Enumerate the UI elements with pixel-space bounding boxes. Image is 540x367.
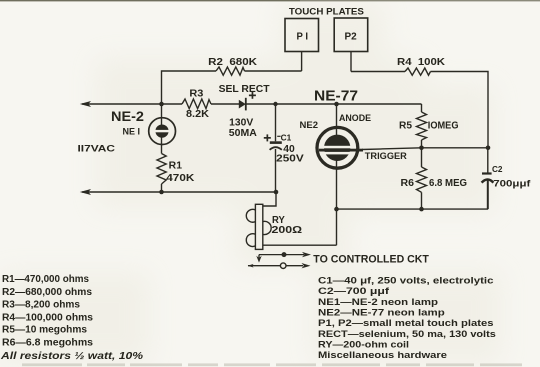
wire trigger line	[362, 148, 488, 150]
svg-text:NE I: NE I	[123, 126, 141, 136]
wire top rail right	[351, 72, 488, 148]
relay contact arm lower	[248, 263, 311, 269]
svg-text:R6: R6	[401, 178, 415, 189]
wire top rail left	[162, 71, 302, 104]
touch plate P1	[285, 19, 319, 72]
svg-text:P I: P I	[297, 31, 309, 43]
capacitor C1	[264, 104, 304, 192]
node junction C1 bottom / relay feed	[274, 190, 279, 195]
resistor R1	[157, 154, 195, 185]
svg-text:R6—6.8 megohms: R6—6.8 megohms	[2, 338, 93, 349]
svg-text:250V: 250V	[276, 154, 304, 165]
node junction trigger C2	[486, 146, 491, 151]
parts list left	[0, 274, 143, 362]
svg-text:TOUCH PLATES: TOUCH PLATES	[289, 7, 364, 18]
resistor R3	[182, 89, 211, 120]
svg-text:R3—8,200 ohms: R3—8,200 ohms	[2, 299, 80, 310]
svg-text:C1: C1	[281, 132, 292, 142]
svg-text:C2: C2	[492, 164, 503, 174]
diode RECT selenium rectifier	[219, 84, 270, 139]
svg-text:R1—470,000 ohms: R1—470,000 ohms	[2, 274, 89, 285]
svg-text:SEL RECT: SEL RECT	[219, 84, 270, 95]
wire main rail right of diode	[246, 103, 422, 105]
svg-text:TO CONTROLLED CKT: TO CONTROLLED CKT	[313, 253, 429, 265]
svg-text:ANODE: ANODE	[339, 113, 371, 124]
capacitor C2	[482, 148, 532, 209]
svg-text:IOMEG: IOMEG	[428, 121, 459, 132]
touch plate P2	[334, 18, 368, 72]
svg-text:NE-2: NE-2	[111, 108, 144, 124]
svg-text:R2—680,000 ohms: R2—680,000 ohms	[2, 287, 92, 298]
svg-text:R1: R1	[169, 161, 183, 172]
svg-text:RECT—selenium, 50 ma, 130 volt: RECT—selenium, 50 ma, 130 volts	[318, 329, 496, 340]
svg-text:II7VAC: II7VAC	[78, 143, 116, 153]
svg-text:P1, P2—small metal touch plate: P1, P2—small metal touch plates	[318, 318, 494, 329]
resistor R5	[399, 104, 459, 148]
label 117VAC	[78, 143, 116, 153]
resistor R4	[397, 57, 446, 75]
relay contact arm upper	[256, 252, 311, 263]
wire left vertical	[161, 104, 163, 192]
svg-text:All resistors ½ watt, 10%: All resistors ½ watt, 10%	[0, 351, 143, 362]
svg-text:470K: 470K	[166, 173, 195, 184]
label TOUCH PLATES	[289, 7, 364, 18]
svg-text:50MA: 50MA	[229, 128, 257, 139]
wire upper AC lead	[80, 101, 182, 107]
svg-text:NE2—NE-77 neon lamp: NE2—NE-77 neon lamp	[318, 308, 445, 319]
node junction C1 top	[273, 102, 277, 106]
svg-text:NE2: NE2	[300, 120, 319, 130]
svg-text:NE-77: NE-77	[314, 88, 358, 105]
wire lower AC lead	[80, 189, 276, 195]
node junction trigger R5 R6	[419, 146, 424, 151]
svg-text:R5—10 megohms: R5—10 megohms	[2, 325, 87, 336]
resistor R2	[208, 57, 258, 75]
svg-text:200Ω: 200Ω	[272, 224, 303, 236]
node junction NE1 anode	[159, 102, 164, 107]
relay RY coil	[246, 192, 336, 249]
parts list right	[318, 276, 496, 362]
svg-text:700μμf: 700μμf	[493, 179, 531, 190]
svg-text:8.2K: 8.2K	[186, 109, 210, 120]
svg-text:130V: 130V	[229, 117, 253, 128]
svg-text:RY—200-ohm coil: RY—200-ohm coil	[318, 339, 409, 350]
neon lamp NE1	[111, 108, 176, 145]
svg-text:R4—100,000 ohms: R4—100,000 ohms	[2, 312, 93, 323]
svg-text:C1—40 μf, 250 volts, electroly: C1—40 μf, 250 volts, electrolytic	[318, 276, 494, 287]
node junction NE2 cathode	[334, 207, 339, 212]
wire	[211, 103, 239, 105]
neon lamp NE2	[300, 88, 407, 246]
svg-text:6.8 MEG: 6.8 MEG	[429, 178, 467, 189]
svg-text:C2—700 μμf: C2—700 μμf	[318, 286, 390, 297]
resistor R6	[401, 148, 468, 209]
svg-text:Miscellaneous hardware: Miscellaneous hardware	[318, 350, 447, 361]
svg-text:R4 100K: R4 100K	[397, 57, 446, 68]
svg-text:TRIGGER: TRIGGER	[365, 151, 407, 162]
svg-text:R5: R5	[399, 121, 412, 132]
svg-text:R2 680K: R2 680K	[208, 57, 258, 68]
node junction R1 bottom	[159, 190, 164, 195]
node junction NE2 anode	[334, 102, 339, 107]
wire bottom right rail	[337, 208, 489, 210]
svg-text:P2: P2	[345, 30, 357, 42]
label TO CONTROLLED CKT	[313, 253, 429, 265]
svg-text:NE1—NE-2 neon lamp: NE1—NE-2 neon lamp	[318, 297, 438, 308]
svg-text:R3: R3	[189, 89, 203, 100]
node junction R6 bottom	[419, 207, 424, 212]
